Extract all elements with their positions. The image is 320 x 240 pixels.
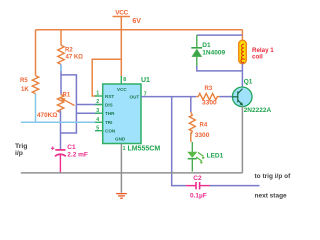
resistor R3 xyxy=(196,93,219,99)
svg-text:3300: 3300 xyxy=(202,99,217,106)
wire R4 to LED xyxy=(190,132,192,142)
svg-text:3: 3 xyxy=(96,108,99,114)
wire VCC top rail xyxy=(36,29,243,31)
svg-text:TRI: TRI xyxy=(105,120,112,125)
svg-text:Q1: Q1 xyxy=(244,78,253,85)
wire R1 bottom xyxy=(60,111,62,134)
svg-text:8: 8 xyxy=(123,77,126,83)
svg-text:6V: 6V xyxy=(132,18,141,25)
wire R2 top lead xyxy=(60,30,62,45)
svg-text:to trig i/p of: to trig i/p of xyxy=(255,173,292,180)
svg-text:THR: THR xyxy=(105,111,115,116)
wire R5 bottom to trig line xyxy=(35,94,37,123)
wire down to C1 xyxy=(60,133,62,150)
wire RST branch from VCC to pin 1 xyxy=(92,59,121,96)
svg-text:coil: coil xyxy=(252,54,263,61)
resistor R5 xyxy=(32,76,38,94)
svg-text:CON: CON xyxy=(105,129,116,134)
svg-text:R5: R5 xyxy=(20,78,28,84)
wire OUT net xyxy=(141,96,196,98)
VCC power symbol xyxy=(113,17,131,77)
svg-text:C2: C2 xyxy=(193,175,202,182)
svg-text:LM555CM: LM555CM xyxy=(128,145,161,152)
pin 8 stub xyxy=(120,76,122,84)
svg-text:1N4009: 1N4009 xyxy=(202,50,225,57)
resistor R4 xyxy=(189,112,195,134)
svg-text:470KΩ: 470KΩ xyxy=(37,112,57,119)
svg-text:4: 4 xyxy=(96,117,99,123)
wire R2 bottom to R1 top xyxy=(60,64,62,94)
svg-text:VCC: VCC xyxy=(115,9,128,16)
svg-text:next stage: next stage xyxy=(255,193,288,200)
svg-text:LED1: LED1 xyxy=(207,153,224,160)
wire relay bottom lead xyxy=(241,64,243,71)
IC inner pin labels xyxy=(105,87,139,142)
svg-text:D1: D1 xyxy=(202,42,211,49)
svg-text:1: 1 xyxy=(96,91,99,97)
diode D1 loop wires xyxy=(197,34,243,36)
wire bottom rail xyxy=(21,172,243,174)
wire relay drop xyxy=(241,30,243,41)
svg-text:2: 2 xyxy=(96,99,99,105)
wire C2 to next stage xyxy=(210,185,260,187)
transistor Q1 xyxy=(232,87,252,107)
wire R3 to Q1 base xyxy=(220,96,233,98)
svg-text:U1: U1 xyxy=(141,77,150,84)
svg-text:DIS: DIS xyxy=(105,102,113,107)
svg-text:R4: R4 xyxy=(200,122,208,128)
svg-text:1: 1 xyxy=(123,146,126,152)
GND pin stub + number xyxy=(120,144,122,193)
svg-text:i/p: i/p xyxy=(15,150,23,157)
svg-text:5: 5 xyxy=(96,125,99,131)
ground symbol xyxy=(116,194,127,199)
svg-text:R1: R1 xyxy=(63,93,71,99)
diode D1 xyxy=(196,35,198,47)
svg-text:GND: GND xyxy=(115,136,126,141)
wire pin2 DIS xyxy=(76,104,101,106)
svg-text:0.1µF: 0.1µF xyxy=(190,192,207,199)
wire pin3 THR xyxy=(76,112,101,114)
wire jog to DIS/THR vertical xyxy=(61,75,77,133)
svg-text:1K: 1K xyxy=(21,87,29,93)
svg-text:2.2 mF: 2.2 mF xyxy=(67,152,88,159)
pin stubs 1-5 xyxy=(95,96,103,131)
svg-text:RST: RST xyxy=(105,94,114,99)
capacitor C2 xyxy=(186,182,210,189)
capacitor C1 xyxy=(51,147,66,173)
svg-text:VCC: VCC xyxy=(117,87,127,92)
relay coil xyxy=(239,40,247,63)
wire R4 top lead xyxy=(190,97,192,112)
wire trig line xyxy=(21,121,96,123)
wire left drop to R5 xyxy=(35,30,37,76)
svg-text:R3: R3 xyxy=(205,86,213,92)
svg-text:3300: 3300 xyxy=(195,132,210,139)
wire branch to C2 xyxy=(172,97,186,186)
resistor R2 xyxy=(58,45,64,64)
svg-text:Trig: Trig xyxy=(15,143,27,150)
IC U1 LM555CM body xyxy=(103,84,141,144)
wire Q1 emitter to rail xyxy=(241,106,243,173)
svg-text:2N2222A: 2N2222A xyxy=(244,107,272,114)
svg-text:C1: C1 xyxy=(67,144,76,151)
svg-text:47 KΩ: 47 KΩ xyxy=(66,54,84,60)
LED1 xyxy=(191,142,193,152)
svg-text:R2: R2 xyxy=(65,47,73,53)
potentiometer R1 xyxy=(57,95,63,113)
svg-text:OUT: OUT xyxy=(130,94,140,99)
